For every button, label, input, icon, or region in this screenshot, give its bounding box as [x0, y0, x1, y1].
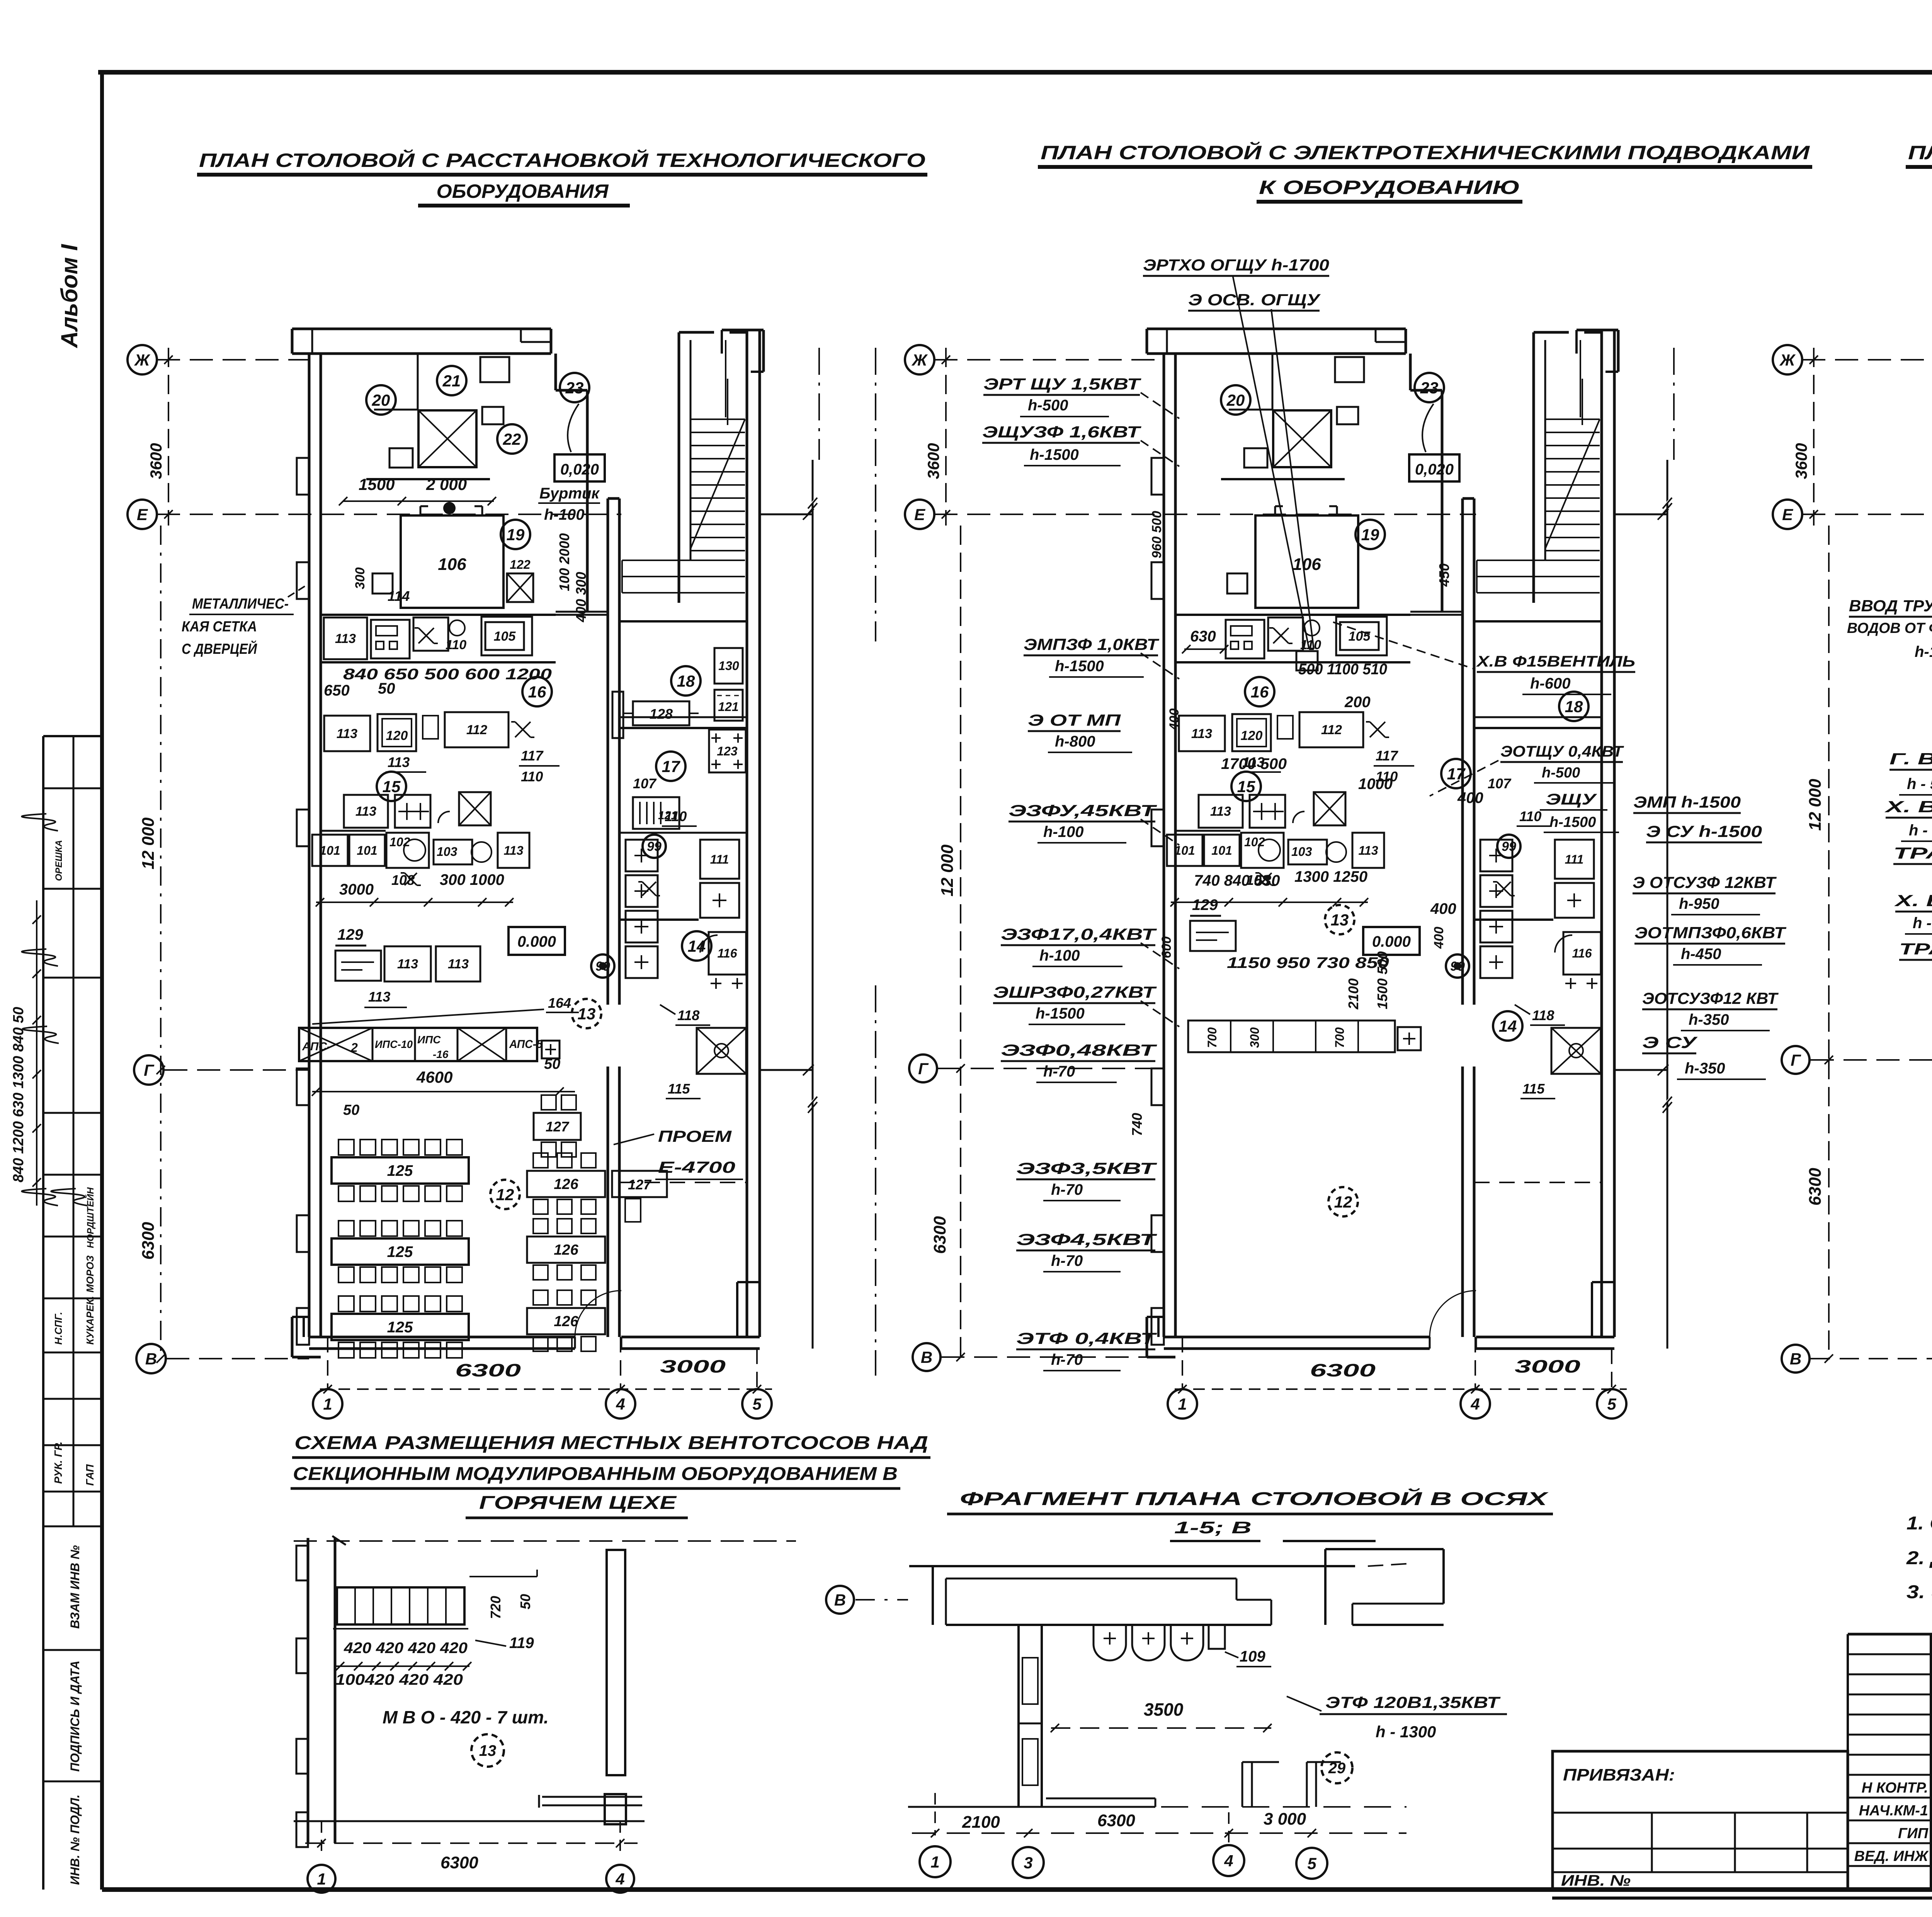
svg-text:740: 740	[1129, 1113, 1145, 1136]
svg-text:h-350: h-350	[1685, 1060, 1725, 1077]
svg-text:110: 110	[521, 769, 543, 784]
svg-text:ЭЗФ0,48КВТ: ЭЗФ0,48КВТ	[1001, 1041, 1157, 1059]
svg-text:12 000: 12 000	[1806, 779, 1825, 831]
svg-text:17: 17	[1447, 765, 1466, 783]
svg-text:Г: Г	[1791, 1051, 1801, 1069]
svg-text:720: 720	[488, 1596, 503, 1619]
svg-text:400: 400	[1432, 927, 1446, 949]
svg-text:3. ЭКСПЛИКАЦИЮ ПОМЕЩЕНИЙ СМ.: 3. ЭКСПЛИКАЦИЮ ПОМЕЩЕНИЙ СМ. ЛИСТ ТХ-3.	[1906, 1581, 1932, 1602]
svg-text:300: 300	[353, 567, 367, 589]
svg-text:МОРОЗ: МОРОЗ	[84, 1255, 96, 1293]
svg-text:112: 112	[466, 723, 487, 737]
svg-text:5: 5	[752, 1395, 762, 1413]
svg-text:ФРАГМЕНТ ПЛАНА СТОЛОВОЙ: ФРАГМЕНТ ПЛАНА СТОЛОВОЙ В ОСЯХ	[960, 1488, 1549, 1509]
svg-text:99: 99	[1502, 839, 1516, 854]
svg-text:Э ОТ МП: Э ОТ МП	[1028, 711, 1121, 729]
svg-text:ПЛАН СТОЛОВОЙ С ЭЛЕКТРОТ: ПЛАН СТОЛОВОЙ С ЭЛЕКТРОТЕХНИЧЕСКИМИ ПОДВ…	[1041, 141, 1810, 163]
svg-text:ОБОРУДОВАНИЯ: ОБОРУДОВАНИЯ	[437, 180, 609, 202]
svg-text:129: 129	[1192, 896, 1218, 913]
svg-text:0.000: 0.000	[517, 933, 556, 950]
svg-text:15: 15	[1237, 777, 1255, 796]
svg-text:6300: 6300	[1806, 1168, 1825, 1206]
svg-text:111: 111	[710, 852, 729, 866]
svg-text:Буртик: Буртик	[539, 485, 600, 502]
svg-text:110: 110	[1519, 808, 1541, 824]
svg-text:400 300: 400 300	[573, 572, 589, 623]
svg-text:ВЗАМ ИНВ №: ВЗАМ ИНВ №	[68, 1545, 82, 1629]
svg-text:113: 113	[1210, 804, 1231, 819]
svg-text:ИПС-10: ИПС-10	[375, 1038, 413, 1050]
svg-text:1. СТРОИТЕЛЬНАЯ ЧАСТЬ ПОКАЗА: 1. СТРОИТЕЛЬНАЯ ЧАСТЬ ПОКАЗАНА УСЛОВНО.	[1906, 1513, 1932, 1534]
svg-text:Н.СПГ.: Н.СПГ.	[53, 1312, 64, 1345]
svg-text:129: 129	[337, 926, 363, 943]
svg-text:h-1500: h-1500	[1036, 1005, 1085, 1022]
svg-text:4: 4	[616, 1395, 625, 1413]
svg-text:120: 120	[1241, 728, 1263, 743]
svg-text:-16: -16	[433, 1048, 449, 1060]
svg-text:110: 110	[446, 638, 466, 652]
svg-text:101: 101	[320, 844, 340, 857]
svg-text:107: 107	[633, 776, 657, 791]
svg-text:ВОДОВ ОТ ФАК-1,5МЗ: ВОДОВ ОТ ФАК-1,5МЗ	[1847, 620, 1932, 636]
svg-text:105: 105	[1349, 629, 1371, 644]
svg-text:Э ОСВ. ОГЩУ: Э ОСВ. ОГЩУ	[1188, 291, 1321, 309]
svg-text:115: 115	[668, 1081, 690, 1097]
svg-text:127: 127	[546, 1119, 570, 1135]
svg-text:ОРЕШКА: ОРЕШКА	[54, 840, 64, 881]
svg-text:Ж: Ж	[1779, 351, 1796, 369]
svg-text:1300 1250: 1300 1250	[1294, 868, 1367, 885]
svg-text:300: 300	[1248, 1027, 1262, 1048]
svg-text:117: 117	[1376, 748, 1398, 764]
svg-text:106: 106	[1293, 555, 1321, 574]
svg-text:ЭШРЗФ0,27КВТ: ЭШРЗФ0,27КВТ	[993, 983, 1157, 1001]
svg-text:АПС-: АПС-	[302, 1040, 331, 1053]
svg-text:1-5; В: 1-5; В	[1174, 1518, 1252, 1537]
svg-text:113: 113	[337, 726, 357, 741]
svg-text:630: 630	[1190, 628, 1216, 645]
svg-text:5: 5	[1307, 1854, 1316, 1873]
svg-text:ЭРТ ЩУ 1,5КВТ: ЭРТ ЩУ 1,5КВТ	[983, 375, 1141, 393]
svg-text:ИПС: ИПС	[417, 1034, 441, 1046]
svg-text:126: 126	[554, 1242, 578, 1258]
svg-text:Альбом I: Альбом I	[56, 244, 82, 349]
svg-text:h-70: h-70	[1051, 1181, 1083, 1198]
svg-text:200: 200	[1344, 694, 1371, 711]
svg-text:h-1500: h-1500	[1030, 446, 1079, 463]
svg-text:Э ОТСУЗФ 12КВТ: Э ОТСУЗФ 12КВТ	[1633, 873, 1777, 891]
svg-text:50: 50	[517, 1594, 533, 1609]
svg-text:4: 4	[615, 1870, 624, 1888]
svg-text:2: 2	[350, 1041, 358, 1055]
svg-text:h-70: h-70	[1051, 1351, 1083, 1368]
svg-text:113: 113	[448, 957, 469, 971]
svg-text:840 1200 630 1300 840 50: 840 1200 630 1300 840 50	[10, 1007, 27, 1182]
svg-text:17: 17	[662, 757, 680, 776]
svg-text:125: 125	[387, 1319, 413, 1336]
svg-text:125: 125	[387, 1243, 413, 1260]
svg-text:126: 126	[554, 1313, 578, 1330]
svg-text:СЕКЦИОННЫМ МОДУЛИРОВАННЫМ ОБ: СЕКЦИОННЫМ МОДУЛИРОВАННЫМ ОБОРУДОВАНИЕМ …	[293, 1464, 898, 1484]
svg-text:18: 18	[1565, 697, 1583, 716]
svg-text:2100: 2100	[962, 1813, 1000, 1832]
svg-text:115: 115	[1522, 1081, 1545, 1097]
svg-text:ЭЗФ3,5КВТ: ЭЗФ3,5КВТ	[1016, 1159, 1157, 1177]
svg-text:103: 103	[1291, 845, 1312, 859]
svg-text:Г: Г	[144, 1061, 155, 1079]
svg-text:ПРИВЯЗАН:: ПРИВЯЗАН:	[1563, 1766, 1675, 1784]
svg-text:105: 105	[494, 629, 516, 644]
svg-text:ЭМП h-1500: ЭМП h-1500	[1633, 793, 1741, 811]
svg-text:1500 500: 1500 500	[1374, 951, 1390, 1009]
svg-text:300 1000: 300 1000	[440, 871, 504, 888]
svg-text:14: 14	[1499, 1017, 1517, 1035]
svg-text:50: 50	[544, 1056, 560, 1072]
svg-text:КУКАРЕК.: КУКАРЕК.	[84, 1296, 96, 1345]
svg-text:ЭОТМПЗФ0,6КВТ: ЭОТМПЗФ0,6КВТ	[1634, 924, 1787, 942]
svg-text:101: 101	[357, 844, 377, 857]
svg-text:3: 3	[1024, 1854, 1032, 1872]
svg-text:116: 116	[717, 946, 737, 960]
svg-text:109: 109	[1240, 1648, 1265, 1665]
svg-text:ЭМПЗФ 1,0КВТ: ЭМПЗФ 1,0КВТ	[1024, 635, 1160, 653]
svg-text:Э СУ h-1500: Э СУ h-1500	[1646, 822, 1762, 840]
svg-text:h - 70: h - 70	[1913, 915, 1932, 932]
svg-text:23: 23	[565, 379, 584, 397]
svg-text:h - 1300: h - 1300	[1376, 1723, 1436, 1741]
svg-text:111: 111	[1565, 852, 1584, 866]
svg-text:1: 1	[1178, 1395, 1187, 1413]
svg-text:125: 125	[387, 1162, 413, 1179]
svg-text:0,020: 0,020	[560, 461, 599, 478]
svg-text:122: 122	[510, 558, 531, 572]
svg-text:128: 128	[650, 706, 673, 722]
svg-text:127: 127	[628, 1177, 652, 1192]
svg-text:16: 16	[528, 683, 546, 701]
svg-text:119: 119	[509, 1635, 534, 1652]
svg-text:0,020: 0,020	[1415, 461, 1454, 478]
svg-text:650: 650	[324, 682, 350, 699]
svg-text:Е: Е	[1782, 505, 1794, 524]
svg-text:400: 400	[1457, 789, 1483, 806]
svg-text:h-1500: h-1500	[1549, 814, 1596, 830]
svg-text:12: 12	[496, 1186, 514, 1204]
svg-text:121: 121	[658, 809, 677, 822]
svg-text:ПЛАН СТОЛОВОЙ С САНТЕХНИЧЕС: ПЛАН СТОЛОВОЙ С САНТЕХНИЧЕСКИМИ ПОДВОДКА…	[1908, 141, 1932, 163]
svg-text:ЭОТЩУ 0,4КВТ: ЭОТЩУ 0,4КВТ	[1500, 743, 1624, 760]
svg-text:ГОРЯЧЕМ ЦЕХЕ: ГОРЯЧЕМ ЦЕХЕ	[479, 1493, 677, 1513]
svg-text:113: 113	[388, 754, 410, 770]
svg-text:В: В	[145, 1350, 157, 1368]
svg-text:106: 106	[438, 555, 466, 574]
svg-text:РУК. ГР.: РУК. ГР.	[52, 1442, 64, 1484]
svg-text:4600: 4600	[416, 1068, 452, 1086]
svg-text:h-100: h-100	[544, 506, 585, 523]
svg-text:16: 16	[1251, 683, 1269, 701]
svg-text:h-950: h-950	[1679, 895, 1719, 912]
svg-text:3500: 3500	[1144, 1699, 1184, 1720]
svg-text:113: 113	[368, 989, 390, 1005]
svg-text:3600: 3600	[924, 443, 942, 479]
svg-text:Э СУ: Э СУ	[1642, 1033, 1698, 1051]
svg-text:120: 120	[386, 728, 408, 743]
svg-text:Х.В Ф15ВЕНТИЛЬ: Х.В Ф15ВЕНТИЛЬ	[1476, 653, 1635, 670]
svg-text:НОРДШТЕЙН: НОРДШТЕЙН	[85, 1187, 96, 1248]
svg-text:450: 450	[1436, 563, 1452, 587]
svg-text:ПОДПИСЬ И ДАТА: ПОДПИСЬ И ДАТА	[68, 1660, 82, 1772]
svg-text:Х. В. Ф 15: Х. В. Ф 15	[1894, 891, 1932, 910]
svg-text:ТРАП Ф100: ТРАП Ф100	[1899, 940, 1932, 958]
svg-text:740 840 530: 740 840 530	[1194, 872, 1280, 889]
svg-text:3600: 3600	[1792, 443, 1810, 479]
svg-text:113: 113	[1191, 726, 1212, 741]
svg-text:h - 50: h - 50	[1907, 776, 1932, 793]
svg-text:130: 130	[718, 659, 739, 673]
svg-text:114: 114	[388, 588, 410, 604]
svg-text:6300: 6300	[455, 1360, 521, 1380]
svg-text:13: 13	[479, 1742, 497, 1759]
svg-text:121: 121	[718, 700, 738, 714]
svg-text:1700 500: 1700 500	[1221, 755, 1287, 772]
svg-text:4: 4	[1224, 1852, 1233, 1870]
svg-text:14: 14	[688, 937, 706, 955]
svg-text:18: 18	[677, 672, 695, 690]
svg-text:113: 113	[397, 957, 418, 971]
svg-text:Г: Г	[918, 1060, 929, 1078]
svg-text:5: 5	[1607, 1395, 1616, 1413]
svg-text:6300: 6300	[440, 1853, 478, 1872]
svg-text:1: 1	[323, 1395, 332, 1413]
svg-text:ЭТФ 0,4КВТ: ЭТФ 0,4КВТ	[1016, 1329, 1157, 1347]
svg-text:h-450: h-450	[1681, 946, 1721, 963]
svg-text:Г. В. Ф 15: Г. В. Ф 15	[1889, 750, 1932, 768]
svg-text:500 1100 510: 500 1100 510	[1298, 661, 1387, 678]
svg-text:420 420 420 420: 420 420 420 420	[344, 1640, 468, 1657]
svg-text:3600: 3600	[147, 443, 165, 479]
svg-text:Ж: Ж	[134, 351, 151, 369]
svg-text:1: 1	[930, 1853, 939, 1871]
svg-text:ЭЩУ: ЭЩУ	[1546, 791, 1597, 808]
svg-text:ПЛАН СТОЛОВОЙ С РАССТАНОВ: ПЛАН СТОЛОВОЙ С РАССТАНОВКОЙ ТЕХНОЛОГИЧЕ…	[199, 149, 925, 171]
svg-text:ЭЗФ4,5КВТ: ЭЗФ4,5КВТ	[1016, 1230, 1157, 1249]
svg-text:118: 118	[1532, 1007, 1554, 1023]
svg-text:12 000: 12 000	[938, 844, 957, 896]
svg-text:ЭРТХО ОГЩУ h-1700: ЭРТХО ОГЩУ h-1700	[1143, 256, 1329, 274]
svg-text:h-500: h-500	[1542, 765, 1580, 781]
svg-text:102: 102	[1244, 835, 1265, 849]
svg-text:113: 113	[335, 631, 356, 646]
svg-text:С ДВЕРЦЕЙ: С ДВЕРЦЕЙ	[182, 640, 257, 657]
svg-text:50: 50	[343, 1102, 359, 1118]
svg-text:99: 99	[647, 839, 662, 854]
svg-text:ЭОТСУЗФ12 КВТ: ЭОТСУЗФ12 КВТ	[1642, 989, 1779, 1007]
svg-text:h-1500: h-1500	[1055, 658, 1104, 675]
svg-text:ВЕД. ИНЖ: ВЕД. ИНЖ	[1854, 1848, 1929, 1864]
svg-text:102: 102	[389, 835, 410, 849]
svg-text:117: 117	[521, 748, 544, 764]
svg-text:КАЯ СЕТКА: КАЯ СЕТКА	[182, 619, 257, 635]
svg-text:19: 19	[1361, 526, 1379, 544]
svg-text:1000: 1000	[1358, 776, 1393, 793]
svg-text:3000: 3000	[660, 1356, 726, 1376]
svg-text:h-500: h-500	[1028, 397, 1068, 414]
svg-text:ЭТФ 120В1,35КВТ: ЭТФ 120В1,35КВТ	[1325, 1693, 1501, 1711]
svg-text:13: 13	[1331, 911, 1349, 929]
svg-text:1150 950 730 850: 1150 950 730 850	[1227, 954, 1389, 971]
svg-text:h-350: h-350	[1689, 1011, 1729, 1028]
svg-text:h-70: h-70	[1051, 1252, 1083, 1269]
svg-text:113: 113	[355, 804, 376, 819]
svg-text:3 000: 3 000	[1264, 1810, 1306, 1829]
svg-text:ВВОД ТРУБОПРО-: ВВОД ТРУБОПРО-	[1849, 597, 1932, 615]
svg-text:НАЧ.КМ-1: НАЧ.КМ-1	[1859, 1803, 1928, 1819]
svg-text:107: 107	[1488, 776, 1512, 791]
svg-text:4: 4	[1470, 1395, 1480, 1413]
svg-text:В: В	[921, 1348, 932, 1366]
svg-text:400: 400	[1167, 708, 1182, 731]
svg-text:h-70: h-70	[1043, 1063, 1075, 1080]
svg-text:ГАП: ГАП	[84, 1464, 96, 1486]
svg-text:600: 600	[1159, 936, 1174, 958]
svg-text:100 2000: 100 2000	[556, 533, 572, 591]
svg-text:3000: 3000	[339, 881, 374, 898]
svg-text:116: 116	[1572, 946, 1592, 960]
svg-text:Е: Е	[137, 505, 148, 524]
svg-text:112: 112	[1321, 723, 1342, 737]
svg-text:6300: 6300	[930, 1216, 949, 1254]
svg-text:ЭЗФ17,0,4КВТ: ЭЗФ17,0,4КВТ	[1001, 925, 1157, 943]
svg-text:400: 400	[1430, 900, 1456, 917]
svg-text:101: 101	[1211, 844, 1232, 857]
svg-text:22: 22	[503, 430, 521, 448]
svg-text:h-100: h-100	[1039, 947, 1080, 964]
svg-text:Е-4700: Е-4700	[658, 1158, 735, 1176]
svg-text:108: 108	[391, 872, 415, 888]
svg-text:ЭЩУЗФ 1,6КВТ: ЭЩУЗФ 1,6КВТ	[982, 423, 1141, 441]
svg-text:Е: Е	[914, 505, 926, 524]
svg-text:ИНВ. №: ИНВ. №	[1561, 1872, 1631, 1889]
svg-text:Х. В. Ф 15: Х. В. Ф 15	[1884, 798, 1932, 816]
svg-text:126: 126	[554, 1176, 578, 1192]
svg-text:Н КОНТР.: Н КОНТР.	[1862, 1780, 1928, 1796]
svg-text:13: 13	[578, 1005, 596, 1023]
svg-text:В: В	[834, 1591, 846, 1609]
svg-text:960 500: 960 500	[1150, 511, 1164, 558]
svg-text:840 650 500 600 1200: 840 650 500 600 1200	[343, 666, 552, 683]
svg-text:2100: 2100	[1345, 978, 1361, 1010]
svg-text:12 000: 12 000	[139, 817, 158, 869]
svg-text:h-600: h-600	[1530, 675, 1571, 692]
svg-text:1: 1	[317, 1870, 326, 1888]
svg-text:101: 101	[1174, 844, 1195, 857]
svg-text:123: 123	[717, 744, 738, 758]
svg-text:23: 23	[1420, 379, 1439, 397]
svg-text:110: 110	[1300, 638, 1321, 652]
svg-text:СХЕМА РАЗМЕЩЕНИЯ МЕСТНЫХ В: СХЕМА РАЗМЕЩЕНИЯ МЕСТНЫХ ВЕНТОТСОСОВ НАД	[294, 1433, 928, 1453]
svg-text:118: 118	[677, 1007, 699, 1023]
svg-text:2. ДАННЫЙ ЛИСТ ЧИТАЙ СОВМЕС: 2. ДАННЫЙ ЛИСТ ЧИТАЙ СОВМЕСТНО С ЛИСТАМИ…	[1906, 1547, 1932, 1568]
svg-text:h-800: h-800	[1055, 733, 1095, 750]
svg-text:6300: 6300	[1097, 1811, 1135, 1830]
svg-text:ИНВ. № ПОДЛ.: ИНВ. № ПОДЛ.	[68, 1795, 82, 1885]
svg-text:100420 420 420: 100420 420 420	[335, 1671, 463, 1688]
svg-text:М В О - 420 - 7 шт.: М В О - 420 - 7 шт.	[383, 1707, 549, 1727]
svg-text:ГИП: ГИП	[1898, 1825, 1929, 1842]
svg-text:113: 113	[1358, 844, 1378, 857]
svg-text:50: 50	[378, 680, 395, 697]
svg-text:h-1920: h-1920	[1915, 643, 1932, 660]
svg-text:700: 700	[1205, 1027, 1219, 1048]
svg-text:h-100: h-100	[1043, 823, 1084, 840]
svg-text:19: 19	[507, 526, 525, 544]
svg-text:1500: 1500	[359, 475, 395, 493]
svg-text:0.000: 0.000	[1372, 933, 1411, 950]
svg-text:164: 164	[548, 995, 571, 1011]
svg-text:МЕТАЛЛИЧЕС-: МЕТАЛЛИЧЕС-	[192, 596, 289, 612]
svg-text:2 000: 2 000	[426, 475, 467, 493]
svg-text:6300: 6300	[1310, 1360, 1376, 1380]
svg-text:103: 103	[437, 845, 457, 859]
svg-text:20: 20	[1226, 391, 1245, 409]
svg-text:К ОБОРУДОВАНИЮ: К ОБОРУДОВАНИЮ	[1259, 177, 1520, 198]
svg-text:12: 12	[1334, 1193, 1352, 1211]
svg-text:20: 20	[372, 391, 390, 409]
svg-text:АПС-5: АПС-5	[509, 1038, 543, 1051]
svg-text:ТРАП Ф 100: ТРАП Ф 100	[1893, 844, 1932, 862]
svg-text:h - 50: h - 50	[1909, 822, 1932, 839]
svg-text:В: В	[1790, 1350, 1801, 1368]
svg-text:700: 700	[1333, 1027, 1347, 1048]
svg-text:3000: 3000	[1515, 1356, 1581, 1376]
svg-text:21: 21	[442, 372, 461, 390]
svg-text:6300: 6300	[139, 1222, 158, 1260]
svg-text:15: 15	[383, 777, 401, 796]
svg-text:113: 113	[503, 844, 523, 857]
svg-text:ЭЗФУ,45КВТ: ЭЗФУ,45КВТ	[1009, 801, 1157, 820]
svg-text:Ж: Ж	[912, 351, 928, 369]
svg-text:ПРОЕМ: ПРОЕМ	[658, 1127, 732, 1145]
